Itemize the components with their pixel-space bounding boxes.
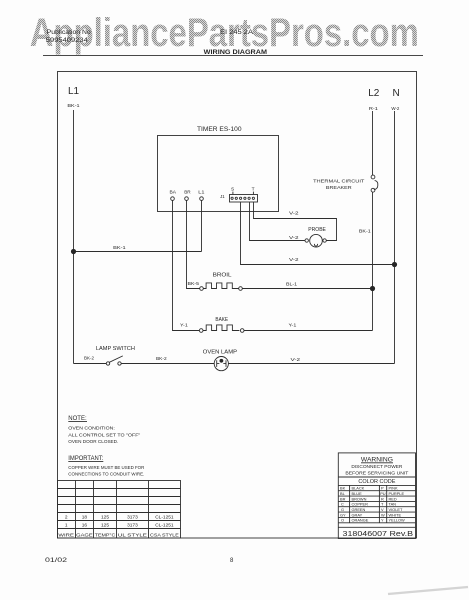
svg-text:BAKE: BAKE — [215, 317, 228, 323]
svg-text:TAN: TAN — [389, 502, 397, 507]
svg-text:J1: J1 — [220, 194, 225, 200]
svg-text:COLOR CODE: COLOR CODE — [358, 479, 395, 485]
svg-text:BK-1: BK-1 — [359, 229, 371, 235]
wire L1 rail to switch — [74, 363, 107, 365]
switch blade — [109, 356, 123, 362]
svg-text:P: P — [381, 486, 384, 491]
svg-text:3173: 3173 — [127, 514, 138, 520]
svg-text:BK-1: BK-1 — [113, 245, 126, 251]
svg-text:WIRE: WIRE — [58, 532, 74, 538]
svg-text:UL STYLE: UL STYLE — [118, 532, 147, 538]
svg-text:BR: BR — [184, 189, 191, 195]
svg-text:BEFORE SERVICING UNIT: BEFORE SERVICING UNIT — [345, 471, 408, 477]
svg-text:GRAY: GRAY — [352, 512, 363, 517]
svg-text:CL-1251: CL-1251 — [155, 522, 174, 528]
svg-text:YELLOW: YELLOW — [389, 518, 406, 523]
svg-text:125: 125 — [101, 514, 109, 520]
svg-text:Y: Y — [381, 518, 384, 523]
wire BA to bake — [173, 200, 200, 330]
svg-text:W: W — [381, 512, 385, 517]
wire broil to L2 rail — [242, 288, 372, 290]
svg-text:R-1: R-1 — [369, 106, 378, 112]
svg-text:BROIL: BROIL — [213, 273, 232, 279]
svg-text:CSA STYLE: CSA STYLE — [150, 532, 179, 538]
diagram border — [58, 72, 417, 539]
svg-text:16: 16 — [82, 522, 88, 528]
svg-text:BK-2: BK-2 — [84, 356, 95, 361]
svg-text:BL-1: BL-1 — [286, 282, 298, 287]
svg-text:VIOLET: VIOLET — [389, 507, 403, 512]
svg-text:OVEN DOOR CLOSED.: OVEN DOOR CLOSED. — [68, 439, 118, 445]
svg-text:3173: 3173 — [127, 522, 138, 528]
wire J1 pin5 to probe left — [250, 202, 305, 240]
scan smudge — [388, 587, 468, 594]
svg-text:V: V — [381, 507, 384, 512]
wire L2 rail upper — [372, 111, 374, 175]
svg-text:N: N — [393, 88, 400, 99]
svg-text:BL: BL — [340, 491, 346, 496]
svg-text:5995409234: 5995409234 — [46, 37, 89, 44]
svg-text:L1: L1 — [198, 189, 205, 195]
svg-text:PU: PU — [380, 491, 386, 496]
svg-text:318046007 Rev.B: 318046007 Rev.B — [343, 529, 414, 538]
svg-text:PROBE: PROBE — [308, 227, 326, 233]
thermal breaker symbol — [371, 175, 375, 179]
svg-text:THERMAL CIRCUIT: THERMAL CIRCUIT — [313, 179, 364, 185]
svg-text:CONNECTIONS TO CONDUIT WIRE.: CONNECTIONS TO CONDUIT WIRE. — [68, 472, 144, 478]
svg-text:WIRING DIAGRAM: WIRING DIAGRAM — [204, 49, 268, 56]
svg-text:ORANGE: ORANGE — [352, 518, 369, 523]
svg-text:BK: BK — [340, 486, 346, 491]
svg-text:BROWN: BROWN — [352, 496, 367, 501]
svg-text:1: 1 — [65, 522, 68, 528]
svg-text:TIMER ES-100: TIMER ES-100 — [197, 126, 242, 133]
svg-text:OVEN LAMP: OVEN LAMP — [203, 349, 238, 355]
svg-text:BR: BR — [340, 496, 346, 501]
svg-text:PINK: PINK — [389, 486, 398, 491]
svg-text:BLUE: BLUE — [352, 491, 363, 496]
svg-text:01/02: 01/02 — [45, 558, 68, 564]
warning box — [338, 453, 415, 539]
wire L1 rail — [73, 110, 75, 364]
svg-text:V-2: V-2 — [289, 211, 299, 217]
svg-text:W-2: W-2 — [391, 106, 399, 112]
svg-text:PURPLE: PURPLE — [389, 491, 405, 496]
junction on N rail — [392, 262, 397, 267]
svg-text:ALL CONTROL SET TO "OFF": ALL CONTROL SET TO "OFF" — [68, 433, 140, 439]
svg-text:EI 245 2A: EI 245 2A — [220, 29, 254, 36]
svg-text:GY: GY — [340, 512, 346, 517]
svg-text:G: G — [341, 507, 344, 512]
svg-text:Y-1: Y-1 — [180, 323, 188, 328]
svg-text:C: C — [341, 502, 344, 507]
svg-text:Publication No: Publication No — [47, 29, 92, 36]
wire spec table — [58, 481, 181, 539]
svg-text:BREAKER: BREAKER — [326, 185, 352, 191]
svg-text:V-2: V-2 — [289, 257, 299, 263]
svg-text:BA: BA — [170, 189, 177, 195]
svg-text:GAGE: GAGE — [76, 532, 93, 538]
wire J1 pin6 to probe right — [254, 202, 337, 240]
svg-text:COPPER WIRE MUST BE USED FOR: COPPER WIRE MUST BE USED FOR — [68, 465, 144, 471]
svg-text:LAMP SWITCH: LAMP SWITCH — [96, 346, 135, 352]
svg-text:BK-1: BK-1 — [67, 103, 80, 109]
svg-text:TEMP°C: TEMP°C — [95, 532, 116, 538]
svg-text:BK-2: BK-2 — [156, 356, 167, 361]
svg-text:V-2: V-2 — [291, 357, 301, 363]
title rule — [43, 55, 423, 57]
svg-text:2: 2 — [65, 514, 68, 520]
svg-text:GREEN: GREEN — [352, 507, 366, 512]
svg-text:COPPER: COPPER — [352, 502, 369, 507]
svg-text:L1: L1 — [68, 86, 80, 97]
svg-text:BK-5: BK-5 — [188, 281, 200, 286]
wire N rail — [394, 111, 396, 364]
svg-text:OVEN CONDITION:: OVEN CONDITION: — [68, 426, 115, 432]
wire bake to L2 rail — [244, 330, 373, 332]
svg-text:Y-1: Y-1 — [289, 323, 297, 328]
wire L2 rail lower — [372, 192, 374, 331]
wire BK-1 horizontal — [74, 251, 202, 253]
wire switch to oven lamp — [121, 363, 214, 365]
svg-text:CL-1251: CL-1251 — [155, 514, 174, 520]
svg-text:18: 18 — [82, 514, 88, 520]
svg-text:RED: RED — [389, 496, 397, 501]
wire J1 pin3 to N rail — [241, 202, 395, 264]
svg-text:R: R — [381, 496, 384, 501]
svg-text:BLACK: BLACK — [352, 486, 365, 491]
svg-text:O: O — [341, 518, 344, 523]
svg-text:L2: L2 — [368, 88, 380, 99]
wire L1 terminal down — [201, 200, 203, 251]
svg-text:125: 125 — [101, 522, 109, 528]
wire BR to broil — [187, 200, 200, 288]
svg-text:V-2: V-2 — [289, 235, 299, 241]
junction broil/L2 — [370, 286, 375, 291]
junction on L1 rail — [71, 249, 76, 254]
J1 pins — [231, 197, 233, 199]
svg-text:DISCONNECT POWER: DISCONNECT POWER — [351, 464, 402, 470]
svg-text:WHITE: WHITE — [389, 512, 402, 517]
wire oven lamp to N rail — [228, 363, 394, 365]
